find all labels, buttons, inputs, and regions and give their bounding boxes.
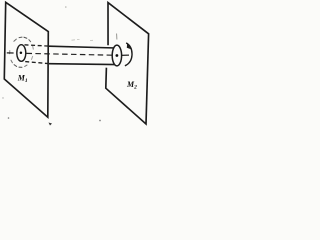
rotation arc around shaft end	[125, 43, 132, 66]
shaft right end cap	[112, 45, 121, 66]
dashed hole circle on plate M1	[10, 37, 34, 67]
axis dot on right end cap	[116, 54, 119, 57]
shaft bottom edge (solid)	[49, 63, 116, 66]
scan specks	[65, 6, 67, 8]
plate M2 (right disc, left edge broken by shaft)	[106, 3, 149, 124]
shaft top edge (solid)	[49, 46, 116, 48]
axis dot on left end cap	[20, 52, 23, 55]
plate M1 (left disc)	[4, 2, 48, 117]
shaft axis line (dashed), left stub	[7, 52, 14, 54]
shaft hidden bottom edge (dashed)	[25, 62, 48, 64]
tiny scan tick above right cap	[116, 34, 118, 40]
shaft axis line (dashed), main run	[27, 53, 113, 55]
scan speck near bottom of plate M1 corner	[49, 123, 53, 126]
shaft axis line, right stub through arc	[121, 54, 130, 56]
faint ghost dashes above shaft	[72, 39, 94, 40]
shaft left end cap	[17, 45, 26, 62]
shaft hidden top edge (dashed)	[25, 45, 49, 46]
rotation arrowhead	[127, 43, 131, 49]
